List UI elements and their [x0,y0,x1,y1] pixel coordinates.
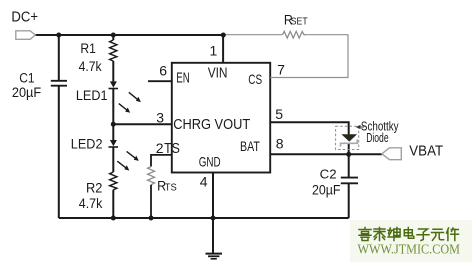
label resistor RSET [284,11,308,27]
wire LED2 to R2 [112,147,114,172]
label pins CHRG VOUT [173,116,250,133]
terminal VBAT [382,148,401,160]
wire C1 branch upper [58,35,60,81]
label pin VIN [208,65,228,81]
svg-text:VBAT: VBAT [409,143,443,159]
svg-text:C1: C1 [19,71,34,86]
svg-text:3: 3 [156,109,164,125]
label LED2 [71,135,103,151]
wire VOUT pin 5 to diode [270,122,349,134]
resistor RTS [148,167,155,185]
label pin 6 [159,63,167,79]
node R1 junction [111,33,116,38]
resistor R1 [110,40,117,61]
svg-text:1: 1 [210,43,218,59]
svg-text:GND: GND [199,154,221,170]
char jia [359,228,371,241]
resistor RSET [283,31,306,38]
node VIN junction [221,33,226,38]
svg-text:4: 4 [200,173,208,189]
label pin GND [199,154,221,170]
label R1 [80,40,96,56]
capacitor C2 [341,178,358,184]
svg-text:WWW.JTMIC.COM: WWW.JTMIC.COM [358,243,461,258]
svg-text:20µF: 20µF [12,85,41,100]
svg-text:20µF: 20µF [312,183,341,198]
svg-text:DC+: DC+ [11,9,38,26]
svg-text:BAT: BAT [240,138,260,154]
wire diode to BAT node [348,144,350,155]
node C1 junction [56,33,61,38]
node CHRG junction [111,122,116,127]
node R2 bottom junction [111,216,116,221]
arrow pointer to Schottky label [356,125,364,129]
label pin 8 [276,136,284,152]
wire LED1 to CHRG node [112,89,114,125]
label pin 5 [275,106,283,122]
svg-text:VIN: VIN [208,65,228,81]
watermark website text [358,243,461,258]
char mu [388,228,400,241]
node BAT diode junction [346,152,351,157]
label Schottky [361,119,399,134]
svg-text:LED1: LED1 [76,87,108,103]
svg-text:2: 2 [156,140,164,156]
label pin 2 [156,140,164,156]
node RTS bottom junction [149,216,154,221]
svg-text:4.7k: 4.7k [79,58,103,74]
label pin 1 [210,43,218,59]
node GND rail junction [211,216,216,221]
label C1 [19,71,34,86]
svg-text:C2: C2 [320,167,337,182]
label pin 3 [156,109,164,125]
wire R2 to bottom rail [112,190,114,218]
label pin BAT [240,138,260,154]
wire top rail DC+ to VIN node [35,34,223,36]
wire CHRG pin 3 [113,123,172,125]
svg-text:Diode: Diode [366,130,388,145]
watermark chinese characters (drawn strokes) [359,228,459,241]
wire EN pin 6 stub [148,80,172,82]
capacitor C1 [51,81,67,86]
wire TS pin 2 to RTS [151,155,172,167]
label pin 4 [200,173,208,189]
label C1 value 20uF [12,85,41,100]
LED LED2 [109,140,139,171]
label pin EN [176,70,190,86]
wire bottom ground rail [59,217,349,219]
label R2 value 4.7k [79,195,103,211]
resistor R2 [110,172,117,190]
svg-text:LED2: LED2 [71,135,103,151]
label VBAT [409,143,443,159]
svg-text:R1: R1 [80,40,96,56]
label Diode [366,130,388,145]
char zi [417,229,429,241]
char jian [447,228,459,241]
svg-text:4.7k: 4.7k [79,195,103,211]
label C2 [320,167,337,182]
label R2 [86,179,103,195]
svg-text:CS: CS [248,71,262,87]
svg-text:TS: TS [165,182,177,194]
label LED1 [76,87,108,103]
svg-text:EN: EN [176,70,190,86]
ground symbol [206,254,223,259]
wire BAT node to C2 [348,154,350,177]
svg-text:R2: R2 [86,179,103,195]
svg-text:SET: SET [291,15,308,27]
svg-text:8: 8 [276,136,284,152]
op-amp U1 charger IC body [172,63,270,173]
wire node to LED2 [112,124,114,140]
wire C1 branch lower / left rail [58,86,60,218]
char yuan [432,229,444,240]
wire C2 riser to bottom rail [348,183,350,218]
wire R1 branch top [112,35,114,40]
label C2 value 20uF [312,183,341,198]
wire RSET loop gray: rail to resistor, down, back to CS pin 7 [223,35,348,78]
svg-text:CHRG VOUT: CHRG VOUT [173,116,250,133]
wire GND pin 4 down [212,173,214,254]
label pin TS [164,141,180,157]
watermark background tint [350,220,472,262]
svg-text:5: 5 [275,106,283,122]
wire RTS to bottom rail [150,185,152,218]
label DC+ [11,9,38,26]
char dian [404,228,414,239]
diode D1 Schottky [341,134,358,146]
label pin CS [248,71,262,87]
wire VIN pin 1 vertical [222,35,224,63]
label pin 7 [277,61,285,77]
terminal DC+ [16,31,36,40]
wire BAT pin 8 to VBAT [270,153,382,155]
LED LED1 [109,81,141,112]
char tai [374,228,385,241]
svg-text:6: 6 [159,63,167,79]
svg-text:7: 7 [277,61,285,77]
label resistor RTS [157,178,177,194]
label R1 value 4.7k [79,58,103,74]
diode D1 Schottky dashed box [336,126,359,149]
svg-text:TS: TS [164,141,180,157]
wire R1 to LED1 [112,61,114,81]
